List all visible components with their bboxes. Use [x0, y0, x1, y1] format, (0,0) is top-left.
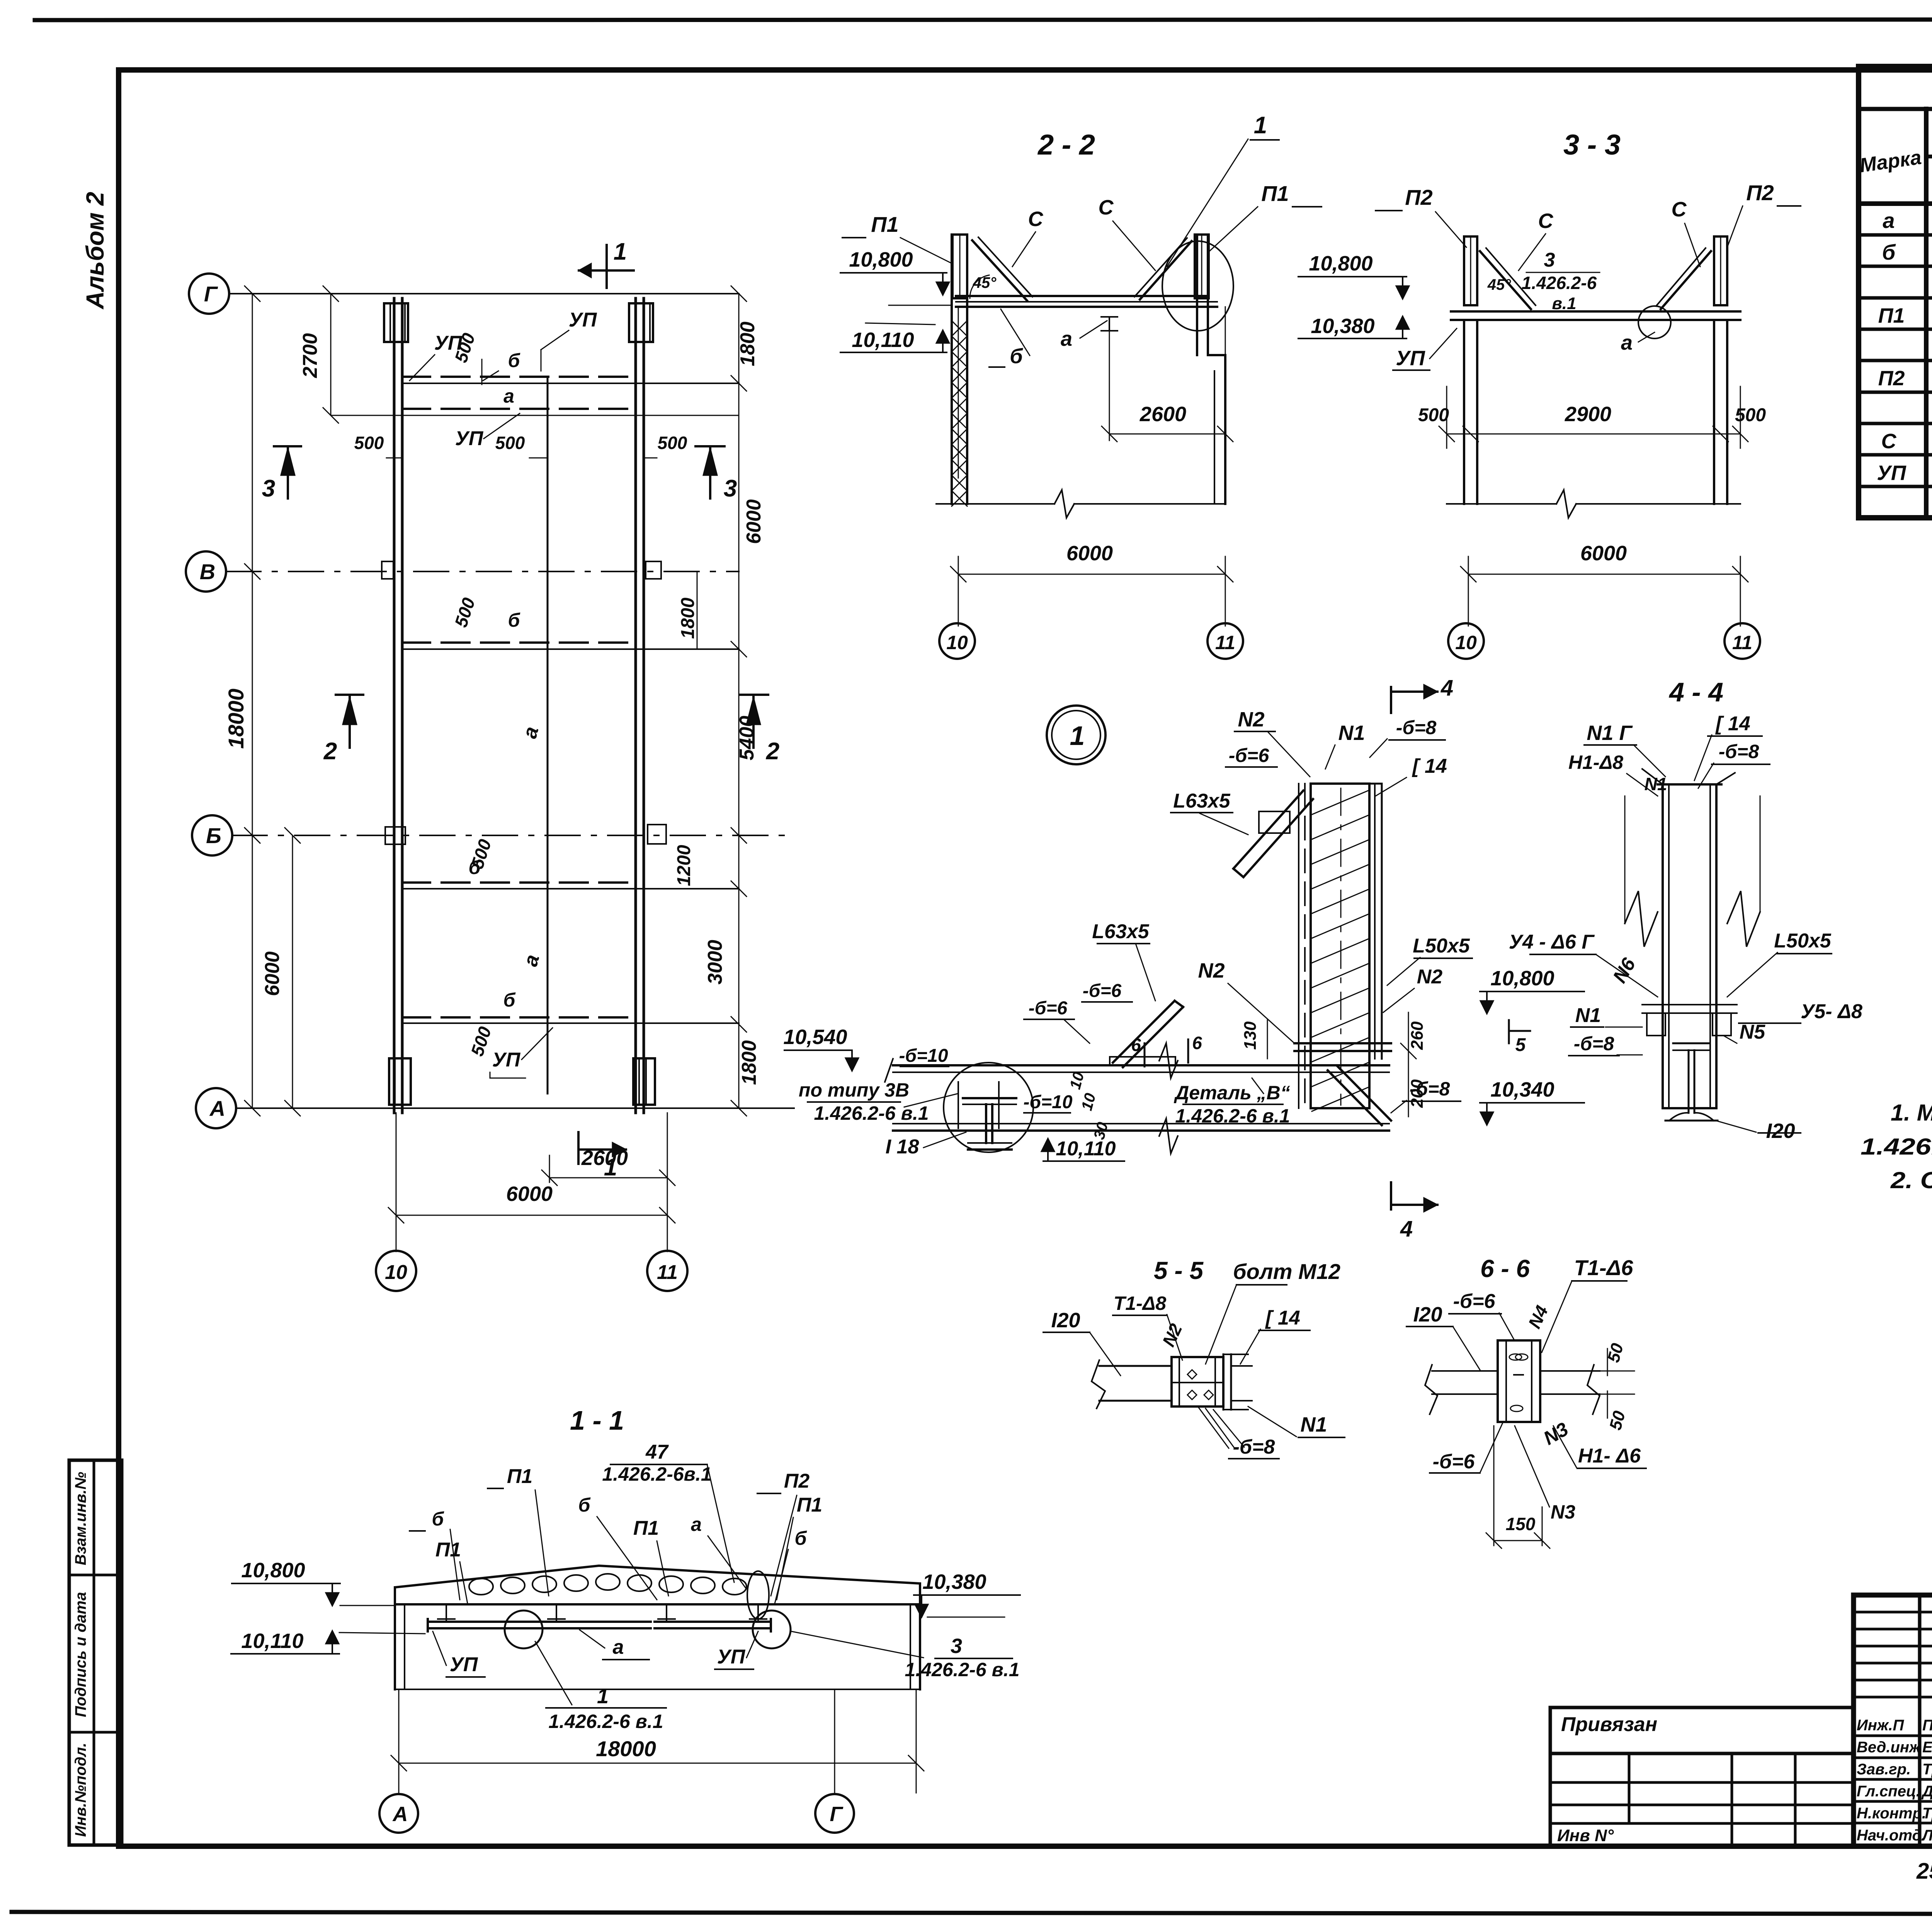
svg-text:N3: N3 — [1551, 1501, 1575, 1523]
column break marks 4-4 — [1625, 891, 1658, 947]
svg-text:I 18: I 18 — [886, 1136, 919, 1158]
plate on beam node — [1110, 1057, 1175, 1065]
svg-text:УП: УП — [1877, 461, 1906, 485]
svg-text:П1: П1 — [633, 1517, 659, 1539]
monorail beam a left — [393, 298, 396, 1113]
svg-text:1.426.2-6в.1: 1.426.2-6в.1 — [602, 1463, 711, 1485]
svg-text:N2: N2 — [1417, 966, 1443, 988]
ground line 2-2 — [936, 503, 1054, 505]
svg-text:150: 150 — [1506, 1514, 1536, 1534]
monorail I20 under column — [1673, 1043, 1710, 1044]
svg-text:10,800: 10,800 — [1309, 252, 1372, 275]
rail I18 profile in circle — [963, 1097, 1016, 1099]
svg-text:3 - 3: 3 - 3 — [1563, 129, 1621, 161]
detail bubble 1 — [1047, 706, 1105, 764]
ext line 10 2-2 — [958, 307, 959, 478]
table row line 7 — [1859, 422, 1932, 425]
svg-text:по типу 3В: по типу 3В — [799, 1079, 909, 1101]
ground line 3-3 — [1447, 503, 1556, 505]
channel 14 5-5 — [1223, 1354, 1225, 1410]
svg-text:С: С — [1028, 207, 1044, 231]
column base plate node — [1294, 1042, 1391, 1044]
svg-text:6: 6 — [1192, 1033, 1202, 1053]
svg-text:18000: 18000 — [224, 689, 248, 749]
bearing angles 4-4 — [1647, 1013, 1665, 1036]
svg-text:I20: I20 — [1051, 1309, 1080, 1332]
cross beam a 1 dim line 2700 end — [331, 415, 739, 416]
svg-text:Инв.№подл.: Инв.№подл. — [72, 1743, 89, 1837]
monorail segment right 1-1 — [655, 1621, 771, 1623]
svg-text:Н1-Δ8: Н1-Δ8 — [1568, 752, 1623, 773]
beam lines left 6-6 — [1432, 1370, 1498, 1372]
dim line right chain — [738, 294, 740, 1108]
svg-text:11: 11 — [1215, 632, 1235, 653]
svg-text:Дыба: Дыба — [1921, 1783, 1932, 1800]
svg-text:10,110: 10,110 — [241, 1629, 303, 1653]
svg-text:1. Монтаж монорельсов выполня: 1. Монтаж монорельсов выполнять в соотве… — [1891, 1100, 1932, 1126]
svg-text:П2: П2 — [1878, 367, 1905, 390]
svg-text:130: 130 — [1241, 1021, 1260, 1050]
svg-text:Привязан: Привязан — [1561, 1713, 1657, 1736]
column 4-4 — [1663, 784, 1716, 1108]
svg-text:4 - 4: 4 - 4 — [1668, 677, 1723, 707]
table row line 2 — [1859, 265, 1932, 268]
svg-text:N1: N1 — [1575, 1004, 1601, 1027]
svg-text:10,800: 10,800 — [849, 248, 913, 271]
svg-text:10,110: 10,110 — [1056, 1138, 1116, 1160]
svg-text:Г: Г — [204, 282, 218, 306]
cross beam б 4 solid — [402, 1022, 739, 1024]
column shaft node — [1311, 784, 1369, 1108]
svg-text:В: В — [200, 560, 215, 584]
cross beam б 1 solid — [402, 383, 739, 384]
oval mark на слабе — [747, 1571, 769, 1619]
column 11 upper 2-2 — [1196, 235, 1198, 355]
svg-text:Взам.инв.№: Взам.инв.№ — [72, 1472, 89, 1565]
dim 50 upper 6-6 — [1607, 1349, 1608, 1376]
svg-text:45°: 45° — [1487, 276, 1511, 293]
svg-text:2 - 2: 2 - 2 — [1037, 129, 1095, 161]
rail clamp at В left — [382, 561, 393, 579]
column circle 11 — [647, 1251, 687, 1291]
bolt slots 6-6 — [1509, 1354, 1522, 1360]
svg-text:Плотникова: Плотникова — [1922, 1717, 1932, 1734]
svg-text:1: 1 — [1254, 112, 1267, 139]
svg-text:а: а — [503, 385, 514, 407]
svg-text:1.426.2-6 вып.1: 1.426.2-6 вып.1 — [1861, 1134, 1932, 1160]
svg-text:10: 10 — [1455, 632, 1477, 653]
cut flag 4 top — [1390, 687, 1392, 713]
svg-text:L50х5: L50х5 — [1413, 935, 1470, 957]
axis circle Г — [189, 274, 229, 314]
building bottom line 1-1 — [395, 1689, 920, 1690]
axis line А — [236, 1107, 794, 1109]
table row line 1 — [1859, 233, 1932, 237]
column flange lines node — [1298, 784, 1299, 1108]
svg-text:2: 2 — [323, 738, 337, 765]
rail clamp at Б left — [385, 827, 405, 844]
svg-text:Гл.спец.: Гл.спец. — [1857, 1783, 1920, 1800]
svg-text:200: 200 — [1408, 1079, 1427, 1108]
svg-text:1: 1 — [614, 238, 627, 265]
svg-text:6000: 6000 — [743, 499, 765, 544]
svg-text:3: 3 — [262, 475, 275, 502]
svg-text:2: 2 — [766, 738, 779, 765]
svg-text:6000: 6000 — [506, 1182, 553, 1206]
svg-text:Трубникова: Трубникова — [1922, 1805, 1932, 1822]
svg-text:У5- Δ8: У5- Δ8 — [1801, 1000, 1862, 1023]
brace С right 3-3 — [1661, 251, 1711, 309]
svg-text:С: С — [1099, 196, 1114, 219]
svg-text:П1: П1 — [507, 1465, 532, 1488]
dim 150 6-6 — [1493, 1426, 1495, 1546]
svg-text:4: 4 — [1440, 675, 1453, 701]
svg-text:N5: N5 — [1740, 1021, 1766, 1043]
svg-text:-б=8: -б=8 — [1233, 1436, 1275, 1458]
bearing plate 4-4 — [1642, 1004, 1737, 1005]
brace С right 2-2 — [1140, 241, 1192, 299]
svg-text:3: 3 — [951, 1634, 962, 1658]
dim line 6000 bottom — [396, 1215, 667, 1216]
monorail beam a right — [634, 298, 637, 1113]
bracket П2 right 3-3 — [1714, 236, 1727, 305]
svg-text:-б=6: -б=6 — [1029, 998, 1068, 1019]
svg-text:УП: УП — [455, 427, 484, 450]
svg-text:Лебедев: Лебедев — [1921, 1827, 1932, 1844]
signature row lines — [1854, 1735, 1932, 1737]
svg-text:1.426.2-6 в.1: 1.426.2-6 в.1 — [548, 1711, 663, 1732]
svg-text:Деталь „В“: Деталь „В“ — [1173, 1082, 1290, 1104]
rail clamp at Б right — [648, 825, 666, 844]
beam web 5-5 — [1099, 1365, 1172, 1367]
dim line 6000 2-2 — [958, 574, 1225, 575]
svg-text:П1: П1 — [435, 1539, 461, 1561]
monorail segment left 1-1 — [428, 1621, 517, 1623]
svg-text:260: 260 — [1408, 1021, 1427, 1050]
svg-text:П2: П2 — [784, 1470, 810, 1492]
column circle 11 2-2 — [1207, 623, 1243, 659]
svg-text:I20: I20 — [1413, 1303, 1442, 1326]
svg-text:Зав.гр.: Зав.гр. — [1857, 1761, 1911, 1778]
svg-text:б: б — [508, 350, 521, 371]
rail end clamp bottom right — [633, 1058, 655, 1105]
svg-text:А: А — [392, 1803, 408, 1826]
svg-text:5: 5 — [1515, 1035, 1526, 1055]
svg-text:1800: 1800 — [736, 321, 759, 366]
hangers 1-1 — [446, 1604, 447, 1622]
svg-text:[ 14: [ 14 — [1265, 1307, 1300, 1329]
column 11 step 2-2 — [1208, 354, 1225, 356]
svg-text:Нач.отд.: Нач.отд. — [1857, 1827, 1926, 1844]
svg-text:3: 3 — [724, 475, 737, 502]
svg-text:1.426.2-6 в.1: 1.426.2-6 в.1 — [1175, 1105, 1290, 1127]
detail circle 3-3 — [1638, 306, 1671, 338]
svg-text:6000: 6000 — [261, 951, 284, 996]
svg-text:1200: 1200 — [674, 845, 694, 886]
cross beam б 3 solid — [402, 888, 739, 889]
svg-text:УП: УП — [717, 1646, 746, 1668]
svg-text:10,110: 10,110 — [852, 328, 914, 352]
svg-text:С: С — [1538, 209, 1554, 233]
column circle 10 — [376, 1251, 416, 1291]
svg-text:б: б — [578, 1494, 591, 1516]
svg-text:-б=8: -б=8 — [1719, 741, 1759, 762]
column 10 3-3 — [1463, 320, 1465, 504]
svg-text:б: б — [795, 1527, 808, 1549]
cross beam б 4 dashed — [402, 1016, 636, 1019]
svg-text:2600: 2600 — [1139, 403, 1186, 426]
svg-text:10,380: 10,380 — [1311, 315, 1374, 338]
rail end clamp bottom left — [389, 1058, 411, 1105]
cross beam б 3 dashed — [402, 881, 636, 884]
axis circle Г 1-1 — [815, 1794, 854, 1833]
cut flag 5 — [1508, 1020, 1510, 1043]
svg-text:1.426.2-6: 1.426.2-6 — [1522, 273, 1597, 293]
svg-text:500: 500 — [1418, 405, 1449, 425]
top angle plate detail — [1259, 811, 1290, 833]
svg-text:а: а — [1621, 331, 1633, 354]
cross beam б 1 dashed — [402, 376, 636, 378]
svg-text:П1: П1 — [1878, 304, 1905, 327]
table row line 8 — [1859, 453, 1932, 457]
svg-text:б: б — [432, 1508, 445, 1530]
column circle 10 2-2 — [939, 623, 975, 659]
cross beam a 1 dashed — [402, 408, 636, 410]
svg-text:10,380: 10,380 — [922, 1570, 986, 1594]
svg-text:18000: 18000 — [596, 1736, 656, 1761]
beam lines right 6-6 — [1540, 1370, 1600, 1372]
svg-text:-б=10: -б=10 — [1023, 1092, 1072, 1112]
cross beam б 2 dashed — [402, 641, 636, 644]
svg-text:а: а — [1883, 208, 1895, 233]
svg-text:500: 500 — [1735, 405, 1766, 425]
svg-text:4: 4 — [1400, 1216, 1413, 1242]
svg-text:11: 11 — [657, 1261, 678, 1284]
svg-text:25388 - 02: 25388 - 02 — [1916, 1859, 1932, 1884]
dim line 2600 — [549, 1177, 667, 1179]
dim line 6000 3-3 — [1468, 574, 1740, 575]
axis line В — [226, 571, 739, 572]
roof beam 2-2 — [956, 295, 1208, 297]
left margin stamp strip — [69, 1460, 122, 1845]
svg-text:У4 - Δ6 Г: У4 - Δ6 Г — [1509, 931, 1595, 953]
table row line 9 — [1859, 485, 1932, 488]
svg-text:L63х5: L63х5 — [1173, 790, 1231, 812]
svg-text:а: а — [1061, 327, 1072, 350]
svg-text:1800: 1800 — [738, 1040, 760, 1085]
brace С left 2-2 — [972, 240, 1027, 301]
detail oval on right node — [1162, 241, 1233, 331]
centre reference line — [547, 379, 549, 1094]
svg-text:-б=10: -б=10 — [899, 1046, 948, 1066]
beam I20 node — [893, 1064, 1389, 1066]
rail end clamp top left — [384, 303, 408, 342]
svg-text:УП: УП — [492, 1049, 521, 1071]
svg-text:6000: 6000 — [1066, 542, 1113, 565]
cross beam б 2 solid — [402, 648, 739, 650]
title block outer border — [1854, 1595, 1932, 1846]
svg-text:Инж.П: Инж.П — [1857, 1717, 1904, 1734]
svg-text:10,800: 10,800 — [1490, 967, 1554, 990]
lower diagonal angle node — [1113, 1001, 1175, 1063]
svg-text:А: А — [209, 1096, 225, 1121]
svg-text:5 - 5: 5 - 5 — [1154, 1257, 1204, 1284]
svg-text:П1: П1 — [871, 212, 898, 236]
svg-text:1: 1 — [597, 1685, 609, 1708]
svg-text:10: 10 — [946, 632, 968, 653]
left columns verticals — [1918, 1595, 1922, 1846]
table header split line — [1926, 155, 1932, 158]
wall lattice hatch — [952, 321, 967, 506]
svg-text:УП: УП — [434, 332, 463, 354]
table header bottom line — [1859, 201, 1932, 206]
dim 18000 1-1 — [398, 1689, 400, 1793]
svg-text:N1 Г: N1 Г — [1587, 721, 1633, 745]
cut flag 4 bottom — [1390, 1182, 1392, 1209]
section cut 1 top — [605, 245, 608, 288]
detail circle по типу — [944, 1063, 1033, 1152]
axis line Б — [232, 835, 794, 836]
ext line column 10 — [396, 1113, 397, 1252]
bracket П1 right 2-2 — [1195, 235, 1209, 298]
svg-text:Инв N°: Инв N° — [1557, 1826, 1614, 1845]
svg-text:б: б — [508, 609, 521, 631]
section cut 3 left — [274, 445, 301, 447]
column cap 4-4 — [1642, 769, 1735, 784]
svg-text:[ 14: [ 14 — [1412, 755, 1447, 777]
svg-text:Вед.инж: Вед.инж — [1857, 1739, 1922, 1756]
svg-text:б: б — [1882, 240, 1896, 264]
svg-text:Альбом 2: Альбом 2 — [81, 192, 109, 310]
dim line 6000 lower-left vertical — [292, 835, 293, 1108]
svg-text:10,340: 10,340 — [1490, 1078, 1554, 1101]
svg-text:П1: П1 — [1261, 181, 1289, 206]
axis circle В — [186, 551, 226, 592]
column 11 3-3 — [1713, 320, 1715, 504]
svg-text:[ 14: [ 14 — [1715, 713, 1750, 735]
table column line Марка — [1924, 109, 1929, 518]
svg-text:б: б — [503, 989, 516, 1011]
svg-text:10: 10 — [385, 1261, 407, 1284]
dim text 1800 mid right — [697, 571, 698, 649]
svg-text:3000: 3000 — [704, 940, 726, 985]
table row line 5 — [1859, 359, 1932, 362]
svg-text:500: 500 — [495, 433, 525, 453]
ext line column 11 — [667, 1113, 668, 1252]
svg-text:500: 500 — [354, 433, 384, 453]
section cut 3 right — [696, 445, 724, 447]
column circle 11 3-3 — [1725, 623, 1760, 659]
svg-text:а: а — [691, 1514, 702, 1535]
channel assembly 6-6 — [1498, 1340, 1540, 1422]
base diagonal brace node — [1337, 1066, 1391, 1121]
bracket П1 left 2-2 — [952, 235, 967, 298]
svg-text:в.1: в.1 — [1552, 294, 1576, 313]
sheet top edge line — [35, 19, 1932, 20]
leader N3 lower 6-6 — [1515, 1426, 1549, 1507]
node right dim chain — [1408, 1012, 1409, 1117]
svg-text:-б=8: -б=8 — [1396, 717, 1437, 738]
dim line 18000 vertical — [252, 294, 253, 1108]
axis circle А — [196, 1088, 236, 1128]
svg-text:2900: 2900 — [1565, 403, 1611, 426]
monorail symbol 2-2 — [1101, 316, 1117, 318]
column 10 wall 2-2 — [951, 235, 953, 504]
table row line 6 — [1859, 391, 1932, 394]
upper small rows — [1854, 1611, 1932, 1614]
brace С left 3-3 — [1480, 251, 1531, 309]
section cut 1 bottom — [577, 1132, 580, 1164]
cut flag 6 beam — [1144, 1043, 1146, 1066]
roof slab 1-1 — [395, 1566, 920, 1604]
svg-text:а: а — [613, 1636, 624, 1658]
svg-text:1 - 1: 1 - 1 — [570, 1405, 624, 1435]
svg-text:I20: I20 — [1766, 1119, 1795, 1143]
svg-text:N2: N2 — [1238, 708, 1264, 731]
svg-text:500: 500 — [658, 433, 687, 453]
detail circle left 1-1 — [505, 1611, 543, 1648]
svg-text:-б=6: -б=6 — [1433, 1451, 1475, 1473]
svg-text:1.426.2-6 в.1: 1.426.2-6 в.1 — [905, 1659, 1019, 1680]
svg-text:N1: N1 — [1300, 1413, 1327, 1436]
section cut 2 left — [336, 694, 363, 696]
svg-text:1800: 1800 — [678, 597, 698, 639]
rail end clamp top right — [629, 303, 653, 342]
left stamp divider 2 — [69, 1731, 122, 1734]
svg-text:11: 11 — [1732, 632, 1752, 653]
axis circle А 1-1 — [379, 1794, 418, 1833]
table row line 3 — [1859, 296, 1932, 300]
rail clamp at В right — [646, 561, 661, 579]
svg-text:Н1- Δ6: Н1- Δ6 — [1578, 1445, 1641, 1467]
left stamp divider vertical — [93, 1460, 95, 1845]
bolt marks in circle — [957, 1082, 959, 1128]
svg-text:болт М12: болт М12 — [1233, 1259, 1340, 1284]
ext line 2600 2-2 — [1109, 331, 1110, 440]
axis circle Б — [192, 815, 232, 855]
svg-text:-б=6: -б=6 — [1083, 981, 1122, 1001]
svg-text:П1: П1 — [797, 1494, 822, 1516]
svg-text:Г: Г — [830, 1803, 844, 1826]
channel 14 on column — [1374, 784, 1376, 1059]
svg-text:П2: П2 — [1405, 185, 1432, 209]
section cut 2 right — [740, 694, 768, 696]
svg-text:3: 3 — [1544, 249, 1555, 271]
svg-text:УП: УП — [1396, 347, 1425, 370]
svg-text:УП: УП — [569, 309, 597, 331]
svg-text:Трубникова: Трубникова — [1922, 1761, 1932, 1778]
dim 500 2900 500 3-3 — [1447, 434, 1740, 435]
svg-text:-б=6: -б=6 — [1229, 745, 1270, 766]
svg-text:6: 6 — [1131, 1035, 1141, 1055]
svg-text:С: С — [1881, 430, 1897, 453]
svg-text:УП: УП — [450, 1653, 478, 1676]
monorail segment mid 1-1 — [519, 1621, 651, 1623]
detail circle right 1-1 — [753, 1611, 791, 1648]
svg-text:-б=6: -б=6 — [1453, 1290, 1496, 1313]
left stamp divider 1 — [69, 1574, 122, 1577]
roof slab holes — [469, 1578, 493, 1595]
svg-text:47: 47 — [645, 1441, 669, 1463]
ext line 11 2-2 — [1225, 307, 1226, 478]
svg-text:6 - 6: 6 - 6 — [1480, 1255, 1530, 1282]
svg-text:Т1-Δ8: Т1-Δ8 — [1114, 1293, 1167, 1314]
axis line Г — [229, 293, 739, 294]
small grid left of title block — [1550, 1753, 1854, 1846]
ext line 2600 — [549, 1155, 550, 1182]
svg-text:Подпись и дата: Подпись и дата — [72, 1592, 89, 1717]
svg-text:6000: 6000 — [1580, 542, 1627, 565]
